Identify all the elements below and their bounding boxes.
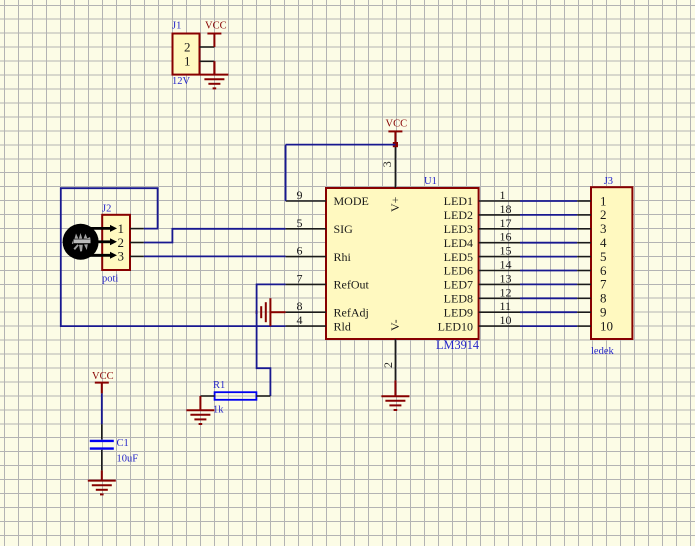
connector J1 body — [173, 34, 200, 75]
potentiometer picture: star scribble — [72, 233, 91, 252]
svg-text:Rhi: Rhi — [334, 250, 352, 264]
svg-text:1: 1 — [184, 54, 191, 69]
svg-text:9: 9 — [297, 188, 303, 202]
potentiometer picture: body — [63, 224, 99, 260]
U1 pin 2 (V-) wire — [394, 339, 396, 380]
wire net U1 RefOut to R1 — [257, 284, 286, 396]
wire net J2.1 to U1 Rld (loop) — [61, 188, 286, 326]
svg-text:LED6: LED6 — [444, 264, 473, 278]
svg-text:4: 4 — [600, 235, 607, 250]
J3 pin 6 wire — [577, 270, 591, 272]
potentiometer picture: lead 2 — [97, 240, 111, 243]
U1 pin 8 (RefAdj) wire — [286, 311, 326, 313]
C1 bottom lead — [101, 450, 103, 471]
svg-text:10uF: 10uF — [117, 454, 139, 465]
wire net LED3 — [520, 228, 577, 230]
potentiometer picture: lead 1 — [86, 227, 111, 230]
svg-text:18: 18 — [500, 202, 512, 216]
svg-text:6: 6 — [297, 244, 303, 258]
J3 pin 2 wire — [577, 214, 591, 216]
C1 top lead — [101, 424, 103, 439]
U1 pin 7 (RefOut) wire — [286, 283, 326, 285]
J3 pin 3 wire — [577, 228, 591, 230]
svg-text:LED1: LED1 — [444, 194, 473, 208]
svg-text:17: 17 — [500, 216, 512, 230]
J1 pin 2 wire — [200, 46, 215, 48]
svg-text:VCC: VCC — [205, 21, 227, 32]
wire net LED4 — [520, 242, 577, 244]
svg-text:3: 3 — [600, 221, 607, 236]
wire net LED9 — [520, 311, 577, 313]
svg-text:V-: V- — [388, 319, 402, 331]
svg-text:C1: C1 — [117, 438, 129, 449]
svg-text:1: 1 — [118, 221, 125, 236]
svg-text:J1: J1 — [172, 21, 181, 32]
svg-text:3: 3 — [118, 249, 125, 264]
svg-text:MODE: MODE — [334, 194, 369, 208]
svg-text:J3: J3 — [604, 176, 613, 187]
svg-text:R1: R1 — [213, 380, 225, 391]
wire down to MODE pin — [285, 145, 287, 201]
svg-text:2: 2 — [381, 362, 395, 368]
svg-text:LED9: LED9 — [444, 305, 473, 319]
svg-text:RefOut: RefOut — [334, 278, 370, 292]
wire VCC rail to MODE branch — [286, 144, 396, 146]
power ground at R1 — [199, 396, 201, 410]
J2 pin 1 wire — [130, 228, 144, 230]
U1 pin 9 (MODE) wire — [286, 200, 326, 202]
junction dot VCC/V+ — [393, 142, 398, 147]
svg-text:5: 5 — [297, 216, 303, 230]
svg-text:RefAdj: RefAdj — [334, 305, 369, 319]
power ground at U1 V- — [394, 380, 396, 396]
U1 pin 15 (LED5) wire — [479, 256, 520, 258]
svg-text:11: 11 — [500, 299, 512, 313]
power port VCC at C1 — [95, 382, 109, 384]
svg-text:2: 2 — [600, 207, 607, 222]
U1 pin 10 (LED10) wire — [479, 325, 520, 327]
svg-text:12: 12 — [500, 285, 512, 299]
wire net LED10 — [520, 325, 577, 327]
connector J3 body — [591, 187, 632, 339]
svg-text:J2: J2 — [102, 204, 111, 215]
wire net J2.2 to U1 SIG — [144, 229, 286, 243]
svg-text:6: 6 — [600, 263, 607, 278]
J3 pin 5 wire — [577, 256, 591, 258]
svg-text:ledek: ledek — [591, 346, 614, 357]
svg-text:LED4: LED4 — [444, 236, 473, 250]
svg-text:7: 7 — [600, 277, 607, 292]
svg-text:5: 5 — [600, 249, 607, 264]
svg-text:2: 2 — [184, 39, 191, 54]
svg-text:LED2: LED2 — [444, 208, 473, 222]
svg-text:poti: poti — [102, 274, 118, 285]
svg-text:10: 10 — [500, 313, 512, 327]
svg-text:LED8: LED8 — [444, 292, 473, 306]
svg-text:LED3: LED3 — [444, 222, 473, 236]
wire J1 pin1 to ground — [213, 61, 215, 74]
svg-text:9: 9 — [600, 305, 607, 320]
U1 pin 18 (LED2) wire — [479, 214, 520, 216]
J3 pin 10 wire — [577, 325, 591, 327]
U1 pin 11 (LED9) wire — [479, 311, 520, 313]
potentiometer picture: lead 3 — [85, 254, 111, 257]
power ground at C1 — [101, 470, 103, 480]
wire net LED2 — [520, 214, 577, 216]
svg-text:VCC: VCC — [92, 371, 114, 382]
svg-text:7: 7 — [297, 271, 303, 285]
connector J2 body — [102, 215, 130, 270]
J3 pin 8 wire — [577, 297, 591, 299]
IC U1 body — [326, 188, 479, 339]
svg-text:8: 8 — [297, 299, 303, 313]
svg-text:10: 10 — [600, 318, 613, 333]
U1 pin 13 (LED7) wire — [479, 283, 520, 285]
power port VCC at U1 — [388, 130, 402, 132]
svg-text:3: 3 — [380, 161, 394, 167]
U1 pin 14 (LED6) wire — [479, 270, 520, 272]
svg-text:16: 16 — [500, 230, 512, 244]
J3 pin 4 wire — [577, 242, 591, 244]
svg-text:VCC: VCC — [386, 119, 408, 130]
svg-text:13: 13 — [500, 271, 512, 285]
U1 pin 16 (LED4) wire — [479, 242, 520, 244]
svg-text:U1: U1 — [424, 176, 437, 187]
svg-text:8: 8 — [600, 291, 607, 306]
svg-text:LED5: LED5 — [444, 250, 473, 264]
svg-text:15: 15 — [500, 244, 512, 258]
wire net LED7 — [520, 283, 577, 285]
wire VCC to C1 — [101, 393, 103, 424]
svg-text:4: 4 — [297, 313, 303, 327]
svg-text:14: 14 — [500, 258, 512, 272]
U1 pin 5 (SIG) wire — [286, 228, 326, 230]
svg-text:LED7: LED7 — [444, 278, 473, 292]
U1 pin 3 (V+) wire — [394, 145, 396, 188]
potentiometer picture: screw slot — [74, 239, 91, 243]
svg-text:12V: 12V — [172, 76, 191, 87]
wire net J2.3 to U1 Rhi — [144, 255, 286, 257]
svg-text:SIG: SIG — [334, 222, 354, 236]
J1 pin 1 wire — [200, 60, 215, 62]
J3 pin 9 wire — [577, 311, 591, 313]
U1 pin 12 (LED8) wire — [479, 297, 520, 299]
resistor R1 body — [215, 392, 257, 400]
power port VCC at J1 — [207, 33, 221, 35]
svg-text:V+: V+ — [388, 196, 402, 212]
svg-text:2: 2 — [118, 235, 125, 250]
J3 pin 1 wire — [577, 200, 591, 202]
wire net LED8 — [520, 297, 577, 299]
U1 pin 1 (LED1) wire — [479, 200, 520, 202]
R1 left lead — [200, 395, 214, 397]
J2 pin 3 wire — [130, 255, 144, 257]
svg-text:1: 1 — [600, 193, 607, 208]
U1 pin 6 (Rhi) wire — [286, 256, 326, 258]
J3 pin 7 wire — [577, 283, 591, 285]
wire net LED1 — [520, 200, 577, 202]
svg-text:Rld: Rld — [334, 319, 351, 333]
svg-text:LED10: LED10 — [438, 319, 473, 333]
U1 pin 4 (Rld) wire — [286, 325, 326, 327]
J2 pin 2 wire — [130, 242, 144, 244]
svg-text:1: 1 — [500, 188, 506, 202]
power ground at J1 — [213, 61, 215, 74]
U1 pin 17 (LED3) wire — [479, 228, 520, 230]
wire net LED5 — [520, 256, 577, 258]
svg-text:LM3914: LM3914 — [436, 338, 479, 352]
R1 right lead — [256, 395, 270, 397]
power ground at U1 RefAdj (rotated) — [270, 311, 285, 313]
svg-text:1k: 1k — [213, 405, 224, 416]
wire net LED6 — [520, 270, 577, 272]
capacitor C1 plates — [90, 441, 114, 449]
